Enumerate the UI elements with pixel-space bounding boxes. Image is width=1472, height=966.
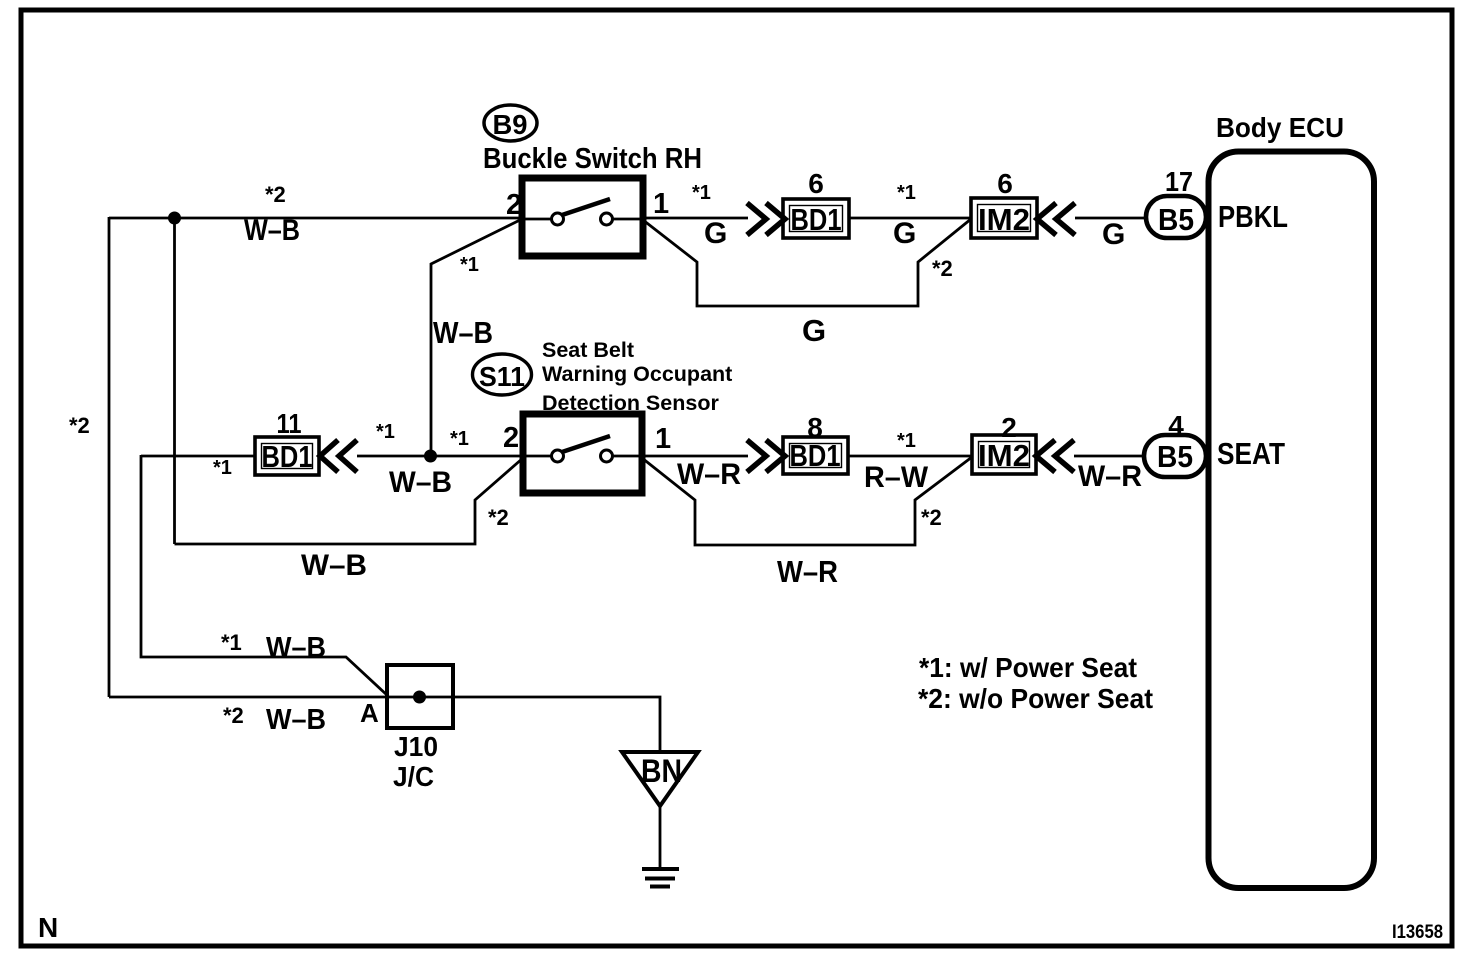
svg-text:17: 17	[1165, 166, 1193, 197]
svg-text:J/C: J/C	[393, 761, 434, 792]
connector oval S11	[473, 354, 532, 395]
svg-text:*1: w/ Power Seat: *1: w/ Power Seat	[919, 652, 1137, 683]
svg-text:*1: *1	[460, 254, 479, 276]
svg-text:B9: B9	[493, 109, 528, 140]
wire: chevrons to S11 pin 2	[357, 455, 523, 458]
svg-text:Buckle Switch RH: Buckle Switch RH	[483, 143, 702, 175]
svg-text:IM2: IM2	[978, 202, 1030, 237]
svg-text:*2: *2	[921, 505, 942, 530]
svg-text:BD1: BD1	[262, 439, 313, 474]
svg-text:6: 6	[808, 168, 824, 199]
wire: *2 loop horizontal to S11 pin 2	[175, 458, 524, 544]
wire: IM2 (2) to B5 (4)	[1074, 455, 1144, 458]
connector BD1 (6)	[783, 199, 849, 238]
svg-text:6: 6	[997, 168, 1013, 199]
svg-text:B5: B5	[1157, 439, 1193, 474]
wire: IM2 to B5	[1075, 217, 1146, 220]
svg-text:*2: *2	[265, 182, 286, 207]
svg-text:W–B: W–B	[266, 632, 326, 664]
wire: top W-B horizontal from left corner to B9 switch pin 2	[109, 217, 522, 220]
connector IM2 (6)	[971, 198, 1037, 238]
connector BD1 (11)	[255, 437, 319, 475]
svg-text:1: 1	[655, 423, 671, 455]
wire: row 2 from left corner to BD1 (11)	[141, 455, 255, 458]
svg-text:1: 1	[653, 188, 669, 220]
svg-text:SEAT: SEAT	[1217, 436, 1285, 471]
svg-text:W–B: W–B	[266, 704, 326, 736]
label Seat Belt Warning Occupant Detection Sensor	[542, 338, 732, 415]
svg-text:2: 2	[503, 422, 519, 454]
svg-text:W–R: W–R	[777, 554, 838, 589]
svg-text:R–W: R–W	[864, 461, 929, 494]
svg-text:*1: *1	[897, 430, 916, 452]
wire: BN to ground	[659, 806, 662, 869]
connector B5 (17)	[1146, 196, 1206, 238]
svg-text:G: G	[1102, 218, 1125, 251]
svg-text:I13658: I13658	[1392, 922, 1443, 943]
wire: bottom *2 W-B run through J10 to ground drop	[109, 697, 660, 752]
node: junction dot on top wire	[168, 212, 181, 225]
svg-text:BN: BN	[641, 753, 682, 789]
svg-text:2: 2	[1001, 412, 1017, 443]
svg-text:G: G	[802, 313, 826, 348]
svg-text:N: N	[38, 912, 58, 943]
svg-text:J10: J10	[394, 731, 438, 762]
Body ECU box	[1209, 152, 1375, 889]
splice chevrons out of IM2	[1037, 203, 1075, 235]
node: junction dot in J10	[413, 691, 426, 704]
wire: BD1 to IM2 row 1	[849, 217, 971, 220]
switch B9 box	[522, 178, 643, 256]
svg-text:IM2: IM2	[978, 438, 1030, 473]
switch B9 contacts	[552, 213, 564, 225]
svg-text:A: A	[360, 698, 379, 728]
svg-text:W–R: W–R	[1078, 460, 1142, 493]
svg-text:Warning Occupant: Warning Occupant	[542, 362, 732, 386]
wire: vertical from top junction dot down to *2 loop	[173, 218, 176, 544]
wire: BD1 (11) branch down to J10	[141, 455, 388, 696]
wire: W-R loop *2 bypass row 2	[642, 457, 972, 545]
switch S11 contacts	[552, 450, 564, 462]
switch S11 box	[523, 414, 642, 493]
svg-text:W–R: W–R	[677, 458, 741, 491]
svg-text:4: 4	[1168, 410, 1184, 441]
svg-text:G: G	[704, 217, 727, 250]
connector oval B9	[484, 105, 537, 141]
svg-text:S11: S11	[479, 361, 525, 392]
connector BD1 (8)	[783, 437, 848, 474]
splice chevrons into BD1 (6)	[747, 203, 785, 235]
ground triangle BN	[622, 752, 698, 806]
wire: B9 pin1 to BD1	[643, 217, 748, 220]
svg-text:*1: *1	[692, 182, 711, 204]
wire: G loop *2 bypass row 1	[643, 219, 971, 306]
splice chevrons into BD1 (8)	[747, 440, 785, 472]
wire: S11 pin 1 to BD1 (8)	[642, 455, 748, 458]
svg-text:PBKL: PBKL	[1218, 199, 1288, 234]
svg-text:G: G	[893, 217, 916, 250]
svg-text:*1: *1	[897, 182, 916, 204]
connector IM2 (2)	[972, 435, 1036, 474]
svg-text:*1: *1	[376, 421, 395, 443]
svg-text:W–B: W–B	[244, 214, 300, 247]
svg-text:2: 2	[506, 189, 522, 221]
svg-text:Body ECU: Body ECU	[1216, 112, 1344, 143]
svg-text:BD1: BD1	[790, 438, 841, 473]
ground symbol	[642, 869, 679, 887]
svg-text:*1: *1	[213, 457, 232, 479]
svg-text:*2: *2	[488, 505, 509, 530]
junction block J10	[387, 665, 453, 728]
connector B5 (4)	[1144, 435, 1206, 477]
svg-text:W–B: W–B	[301, 549, 367, 582]
svg-text:W–B: W–B	[433, 315, 493, 350]
svg-text:*2: *2	[932, 256, 953, 281]
svg-text:8: 8	[807, 412, 823, 443]
svg-text:11: 11	[277, 408, 302, 439]
svg-text:*2: *2	[223, 703, 244, 728]
splice chevrons out of IM2 (2)	[1036, 440, 1074, 472]
switch B9 lever	[562, 199, 610, 215]
svg-text:*2: w/o Power Seat: *2: w/o Power Seat	[918, 683, 1153, 714]
svg-text:W–B: W–B	[389, 466, 452, 499]
switch S11 lever	[562, 436, 610, 452]
svg-text:BD1: BD1	[791, 202, 842, 237]
svg-text:Seat Belt: Seat Belt	[542, 338, 634, 362]
splice chevrons into BD1 (11)	[320, 440, 357, 472]
svg-text:*1: *1	[450, 428, 469, 450]
svg-text:*1: *1	[221, 630, 242, 655]
wire: BD1 (8) to IM2 (2)	[848, 455, 972, 458]
wire: *1 diagonal from B9 pin 2 down to junction dot on row 2	[431, 219, 522, 456]
svg-text:*2: *2	[69, 413, 90, 438]
svg-text:B5: B5	[1158, 202, 1194, 237]
wire: left vertical *2 from (109,218) down to bottom run	[108, 217, 111, 697]
node: junction dot row 2	[424, 450, 437, 463]
